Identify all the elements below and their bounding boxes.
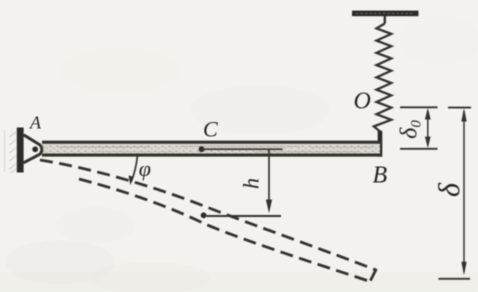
label delta (rotated) [433,182,466,197]
svg-text:C: C [203,117,218,142]
spring coil [374,24,392,132]
delta double arrow [461,108,466,275]
lower reference line for h [207,215,282,217]
ceiling support [352,11,419,17]
svg-text:O: O [354,89,371,115]
svg-text:B: B [373,163,388,189]
delta0 top tick [400,106,438,108]
delta0 double arrow [425,108,431,149]
beam end cap / spring attachment at B [378,131,383,157]
spring upper stem [384,16,386,24]
dashed rotated beam upper edge [40,160,376,270]
label h (rotated) [239,178,264,189]
beam AB body [42,142,382,155]
reference line from C inside beam [203,148,283,150]
delta bottom tick [439,278,471,280]
dimension h arrow [266,149,272,213]
svg-text:δ: δ [433,182,466,197]
label phi [139,156,151,181]
label O [354,89,371,115]
svg-text:h: h [239,178,264,189]
point C dot [199,146,205,152]
point C' dot on rotated beam [201,212,207,218]
wall hatching at A [5,130,17,173]
label C [203,117,218,142]
label B [373,163,388,189]
delta0 bottom tick [400,148,438,150]
pin bracket at A [24,135,42,163]
label delta0 (rotated) [396,120,424,139]
wall bar at A [17,128,24,173]
dashed rotated beam end cap [370,269,376,281]
pin at A [32,146,38,152]
dashed rotated beam lower edge [79,179,370,282]
label A [29,113,42,133]
svg-text:A: A [29,113,42,133]
angle arc phi [129,154,138,185]
svg-text:φ: φ [139,156,151,181]
delta top tick [448,107,471,109]
